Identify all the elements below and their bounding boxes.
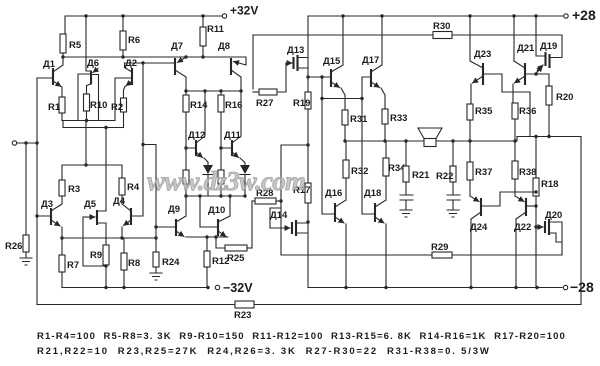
resistor R24 <box>153 252 180 273</box>
transistor Q3 <box>37 199 62 238</box>
resistor R30 <box>433 21 452 39</box>
transistor Q11 <box>221 91 245 165</box>
transistor Q23 <box>470 16 530 137</box>
svg-text:Д23: Д23 <box>474 49 491 60</box>
caption line 1 <box>37 331 565 342</box>
wire emitter rail y238 <box>60 236 156 239</box>
svg-text:Д8: Д8 <box>218 41 230 52</box>
wire +32V top rail <box>65 16 222 34</box>
resistor R16 <box>218 91 242 170</box>
wire collector link y63 <box>125 61 176 64</box>
resistor R2 <box>111 98 127 128</box>
svg-text:R21,R22=10 R23,R25=27K R24,R: R21,R22=10 R23,R25=27K R24,R26=3. 3K R27… <box>37 346 489 357</box>
svg-text:Д14: Д14 <box>270 210 288 221</box>
MOSFET Д14 <box>270 208 308 236</box>
svg-text:Д10: Д10 <box>208 205 225 216</box>
ground C1 <box>400 210 412 217</box>
resistor R36 <box>512 103 536 141</box>
resistor R6 <box>120 16 140 57</box>
capacitor C1 <box>400 195 413 210</box>
svg-text:R30: R30 <box>433 21 450 32</box>
wire R25 to R28 x252 <box>251 201 253 248</box>
svg-text:R6: R6 <box>128 35 140 46</box>
watermark <box>147 166 307 196</box>
transistor Q8 <box>218 41 246 91</box>
transistor Q9 <box>156 196 186 237</box>
resistor R29 <box>431 242 452 258</box>
svg-text:Д6: Д6 <box>87 58 99 69</box>
svg-text:R33: R33 <box>390 113 407 124</box>
transistor Q4 <box>113 196 143 238</box>
resistor R21 <box>403 141 430 195</box>
svg-text:R7: R7 <box>67 260 79 271</box>
resistor R33 <box>382 109 407 141</box>
node junction dots +28 rail <box>341 14 537 17</box>
wire input column x37 <box>35 78 38 305</box>
ground R24 <box>150 273 162 280</box>
svg-text:R2: R2 <box>111 102 123 113</box>
MOSFET Д20 <box>536 210 562 255</box>
transistor Q5 current source <box>84 199 106 245</box>
resistor R28 <box>252 188 283 204</box>
wire +28 top rail <box>308 15 563 17</box>
svg-text:Д18: Д18 <box>364 188 381 199</box>
wire bottom feedback line <box>37 304 581 306</box>
svg-text:R35: R35 <box>475 106 493 117</box>
wire tail x86 <box>85 121 87 166</box>
svg-text:+28: +28 <box>572 7 596 23</box>
wire output to R18 x536 <box>535 137 537 179</box>
resistor R25 <box>216 237 252 264</box>
resistor R3 <box>59 180 80 204</box>
svg-text:R36: R36 <box>519 106 536 117</box>
transistor Q12 <box>186 91 208 165</box>
svg-text:R21: R21 <box>412 170 430 181</box>
svg-text:−28: −28 <box>570 279 594 295</box>
svg-text:Д21: Д21 <box>517 43 535 54</box>
resistor R8 <box>121 238 140 288</box>
svg-text:R19: R19 <box>293 98 310 109</box>
capacitor C2 <box>447 195 460 210</box>
svg-text:Д12: Д12 <box>188 130 205 141</box>
wire base columns x322 x362 <box>320 75 363 214</box>
svg-text:Д24: Д24 <box>470 222 488 233</box>
ground R26 <box>20 258 32 265</box>
svg-text:Д17: Д17 <box>362 55 379 66</box>
resistor R7 <box>59 238 79 288</box>
svg-text:R3: R3 <box>68 184 80 195</box>
wire feedback takeoff x581 <box>580 137 582 305</box>
svg-text:Д20: Д20 <box>545 210 562 221</box>
transistor Q17 <box>362 16 385 109</box>
transistor Q6 current source <box>78 16 99 121</box>
svg-text:Д1: Д1 <box>43 59 56 70</box>
wire emitter rail y57 <box>61 55 246 65</box>
svg-text:R26: R26 <box>5 241 22 252</box>
svg-text:Д13: Д13 <box>287 45 304 56</box>
resistor R12 <box>204 237 229 288</box>
svg-text:Д19: Д19 <box>540 41 557 52</box>
transistor Q1 <box>37 57 63 97</box>
MOSFET Д13 <box>286 45 308 71</box>
resistor R18 <box>533 178 558 288</box>
svg-text:R23: R23 <box>234 310 251 321</box>
wire Q5 drain x106 <box>105 128 107 211</box>
wire VAS column x308 <box>306 16 309 147</box>
diode D2 <box>240 165 250 196</box>
caption line 2 <box>37 346 489 357</box>
wire cross link y165 <box>62 163 122 180</box>
resistor R34 <box>383 141 406 200</box>
svg-text:R8: R8 <box>128 258 140 269</box>
svg-text:Д16: Д16 <box>325 188 342 199</box>
terminal +32V <box>222 4 258 19</box>
wire +28 to Д19 drain <box>536 16 544 56</box>
terminal -32V <box>215 281 253 295</box>
resistor R15 <box>218 170 224 196</box>
resistor R14 <box>183 91 208 170</box>
svg-text:R16: R16 <box>225 100 242 111</box>
svg-text:Д22: Д22 <box>514 222 531 233</box>
svg-text:+32V: +32V <box>230 4 258 18</box>
ground C2 <box>447 210 459 217</box>
svg-text:R5: R5 <box>69 40 82 51</box>
resistor R38 <box>512 141 536 196</box>
transistor Q18 <box>362 188 386 288</box>
terminal +28 <box>564 7 596 23</box>
svg-text:R20: R20 <box>556 92 573 103</box>
transistor Q2 <box>115 58 137 121</box>
transistor Q22 <box>514 196 536 288</box>
svg-text:Д15: Д15 <box>323 56 341 67</box>
resistor R17 <box>293 183 311 288</box>
transistor Q21 <box>513 16 549 103</box>
svg-text:R27: R27 <box>256 98 273 109</box>
transistor Q7 <box>171 41 186 91</box>
svg-text:R29: R29 <box>431 242 448 253</box>
svg-text:R22: R22 <box>436 171 453 182</box>
svg-text:R9: R9 <box>90 250 102 261</box>
svg-text:R1-R4=100 R5-R8=3. 3K R9-R10: R1-R4=100 R5-R8=3. 3K R9-R10=150 R11-R12… <box>37 331 565 342</box>
transistor Q10 <box>200 196 230 237</box>
svg-text:R11: R11 <box>207 24 225 35</box>
svg-text:Д4: Д4 <box>113 196 126 207</box>
resistor R31 <box>342 110 368 141</box>
resistor R10 <box>84 94 108 121</box>
wire output rail y141 <box>343 135 581 143</box>
resistor R11 <box>200 16 225 57</box>
diode D1 <box>203 165 213 196</box>
wire Д19 gate to bias <box>550 35 562 58</box>
resistor R35 <box>467 104 493 141</box>
wire diff load A y120.5 <box>62 119 115 122</box>
wire mirror link y91 <box>184 89 242 92</box>
wire link x281 <box>281 145 308 255</box>
wire -32V rail <box>62 286 210 289</box>
resistor R19 <box>293 92 311 183</box>
wire bias line y35 <box>253 35 562 89</box>
MOSFET Д19 <box>537 41 557 71</box>
wire driver emitters y237 <box>186 235 228 238</box>
svg-text:Д7: Д7 <box>171 41 183 52</box>
wire diff load B y128 <box>63 121 124 130</box>
resistor R27 <box>253 63 286 109</box>
wire branch x156 <box>143 145 158 253</box>
speaker <box>418 128 442 147</box>
resistor R37 <box>467 141 492 196</box>
resistor R5 <box>60 34 82 57</box>
wire input node <box>12 141 38 145</box>
svg-text:www.dz3w.com: www.dz3w.com <box>147 166 307 196</box>
terminal -28 <box>563 279 594 295</box>
svg-text:Д9: Д9 <box>168 204 180 215</box>
resistor R26 <box>5 143 29 258</box>
svg-text:R25: R25 <box>227 253 245 264</box>
svg-text:R18: R18 <box>541 179 558 190</box>
svg-text:R24: R24 <box>162 257 180 268</box>
svg-text:R10: R10 <box>90 100 107 111</box>
wire takeoff x143 <box>141 63 144 216</box>
resistor R13 <box>183 170 189 196</box>
svg-text:Д5: Д5 <box>84 199 97 210</box>
svg-text:R37: R37 <box>475 167 492 178</box>
resistor R1 <box>48 97 65 121</box>
resistor R32 <box>343 141 368 200</box>
node junction dots +32 rail <box>84 14 204 17</box>
transistor Q15 <box>308 16 345 110</box>
svg-text:R4: R4 <box>127 182 140 193</box>
svg-text:Д3: Д3 <box>41 199 53 210</box>
resistor R9 <box>90 245 109 288</box>
wire source link y255 with R29 <box>281 254 562 256</box>
resistor R20 <box>546 86 573 138</box>
svg-text:Д11: Д11 <box>224 130 242 141</box>
svg-text:R1: R1 <box>48 102 61 113</box>
transistor Q16 <box>322 188 346 288</box>
resistor R23 <box>234 301 254 321</box>
wire bias bottom y196 <box>184 194 246 197</box>
wire -28 rail <box>308 286 562 289</box>
resistor R22 <box>436 141 456 195</box>
transistor Q24 <box>470 190 538 287</box>
svg-text:R38: R38 <box>519 167 536 178</box>
resistor R4 <box>119 178 140 204</box>
wire Q5 gate return <box>83 217 106 266</box>
svg-text:R32: R32 <box>351 166 368 177</box>
svg-text:−32V: −32V <box>223 281 253 295</box>
svg-text:R31: R31 <box>350 114 368 125</box>
